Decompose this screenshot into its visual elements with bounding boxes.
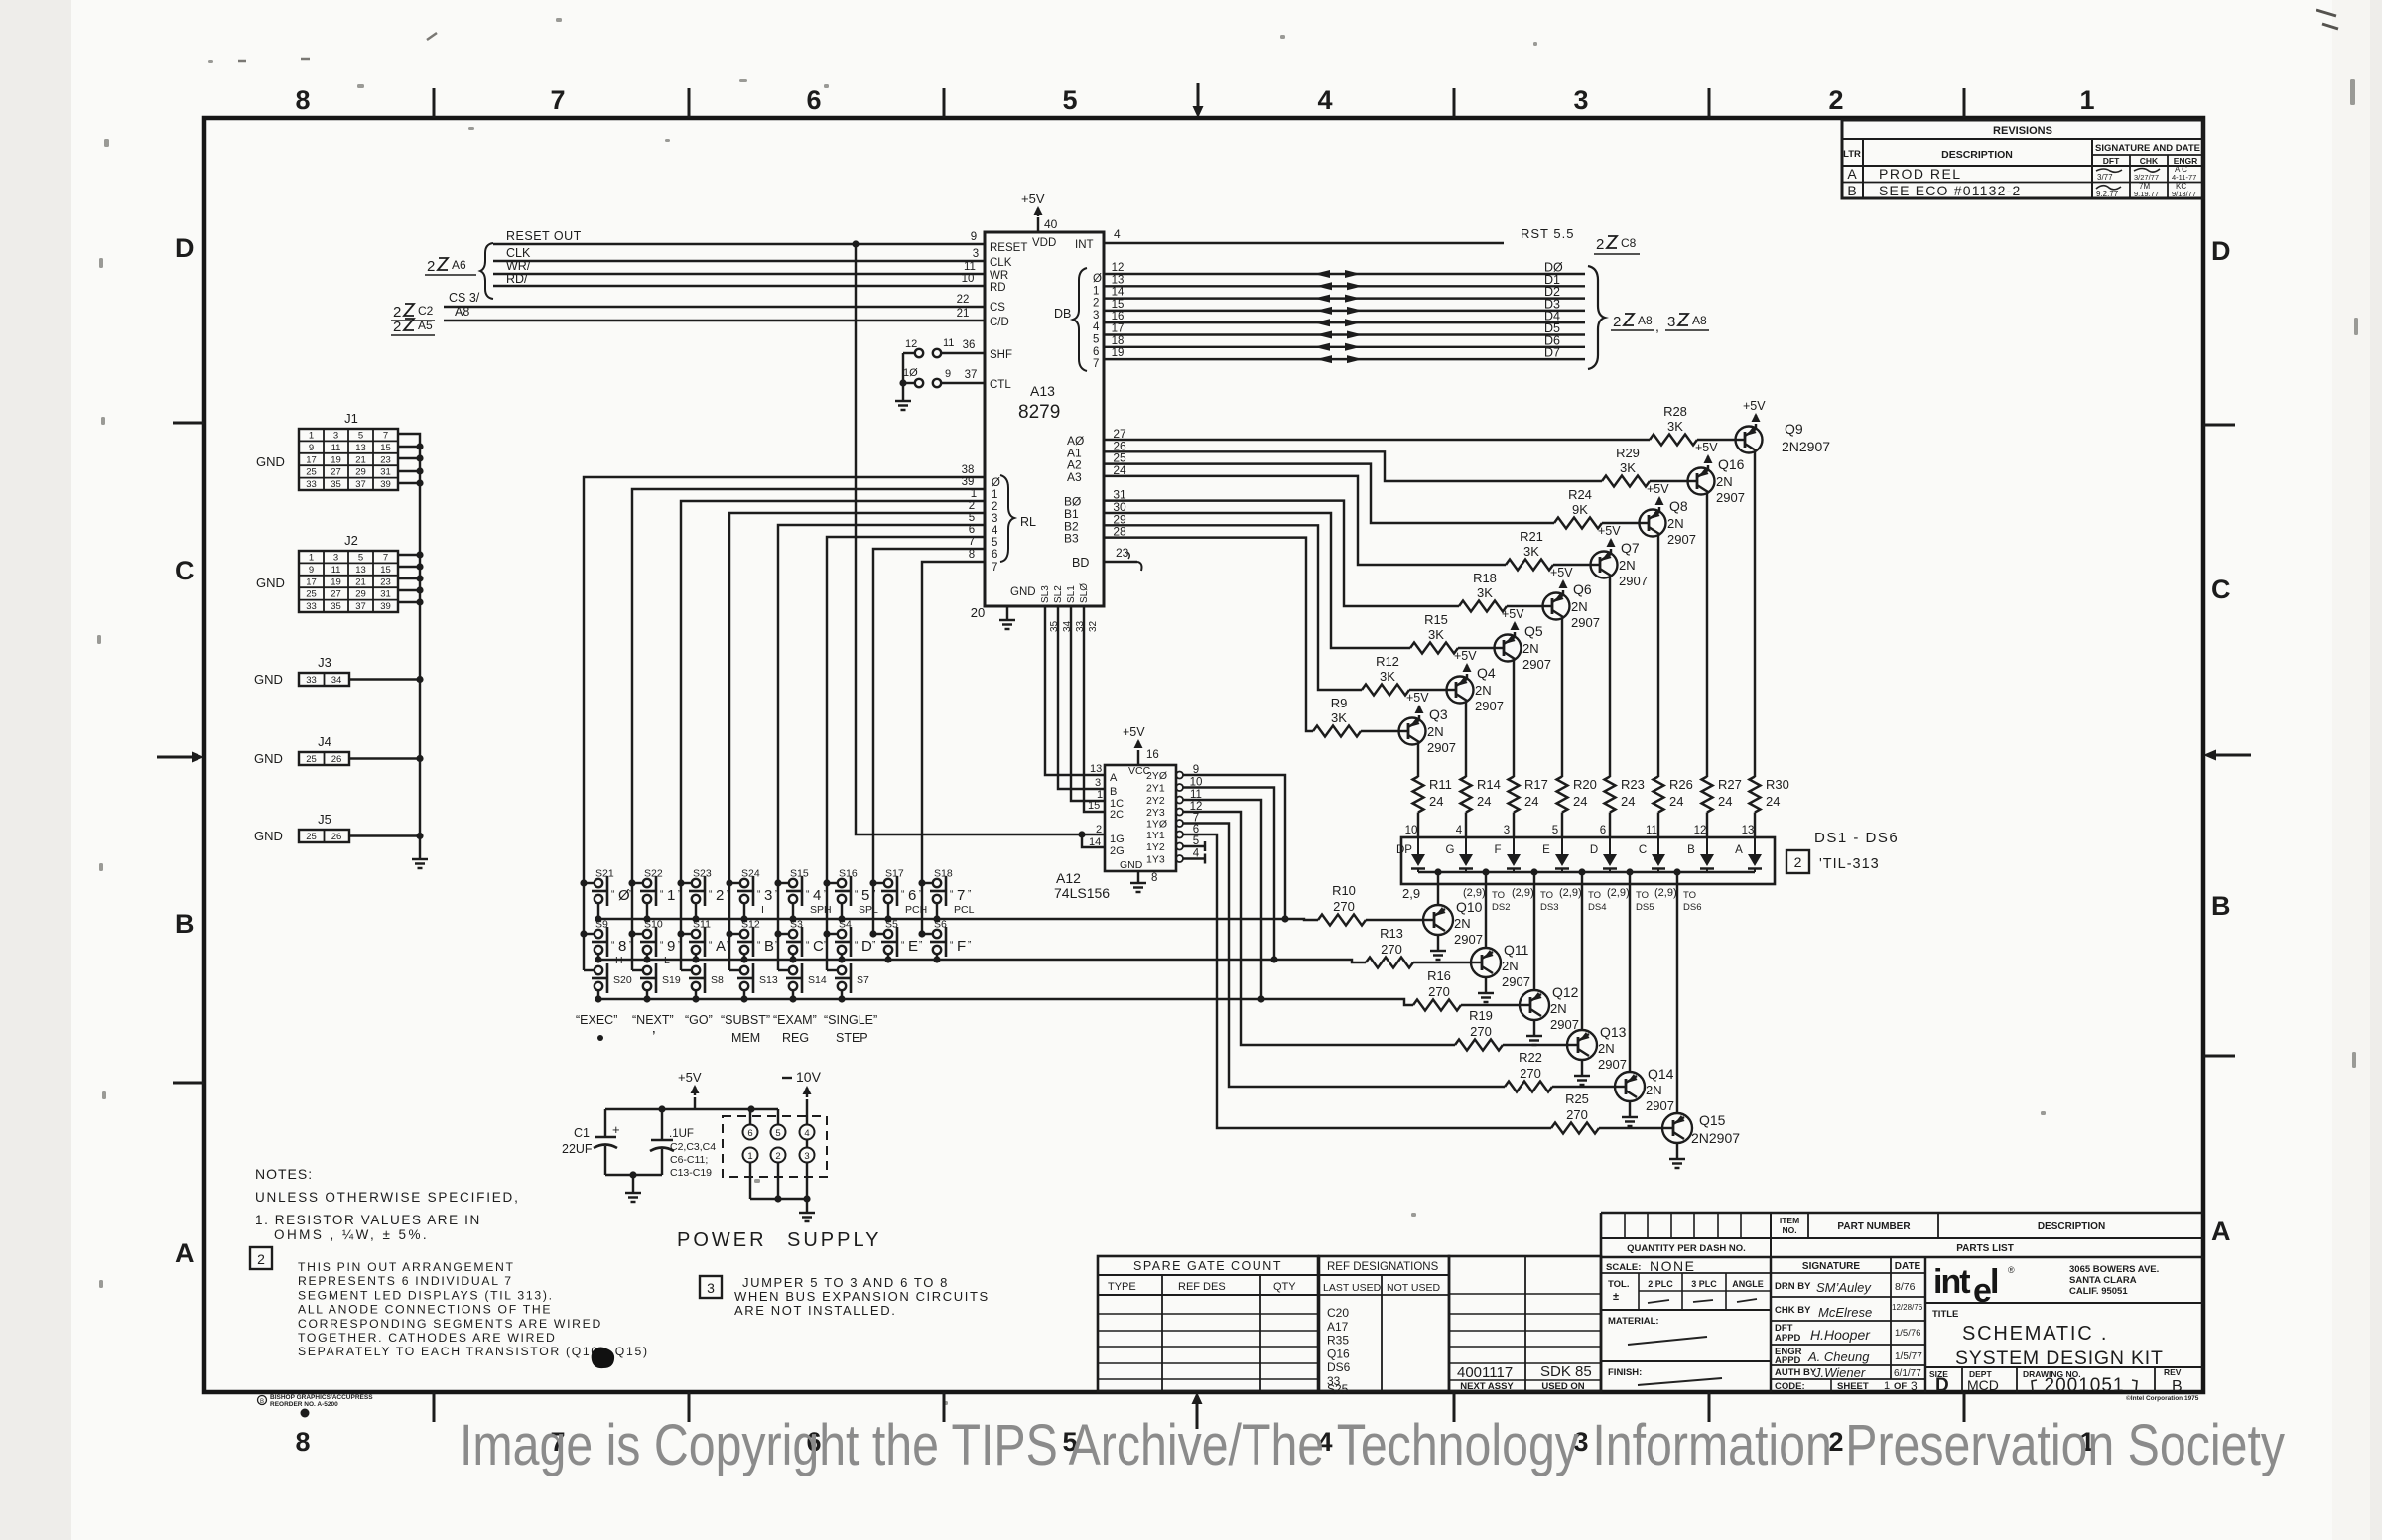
svg-text:11: 11	[964, 261, 976, 273]
svg-text:CS 3/: CS 3/	[449, 291, 480, 305]
svg-text:JUMPER 5 TO 3 AND 6 TO 8: JUMPER 5 TO 3 AND 6 TO 8	[742, 1275, 949, 1290]
wire A2 staircase	[1104, 464, 1554, 523]
wire RL0 staircase	[584, 477, 985, 883]
svg-text:S21: S21	[595, 868, 614, 880]
display cathode junction dots	[1434, 868, 1441, 875]
svg-text:NO.: NO.	[1782, 1225, 1796, 1235]
display cathode stubs	[1437, 872, 1439, 884]
svg-text:17: 17	[1112, 323, 1125, 335]
spare gate count table	[1098, 1256, 1318, 1391]
svg-text:AUTH BY: AUTH BY	[1775, 1367, 1817, 1378]
svg-text:A8: A8	[1692, 314, 1707, 327]
svg-text:GND: GND	[256, 576, 285, 590]
svg-text:OHMS , ¼W, ± 5%.: OHMS , ¼W, ± 5%.	[274, 1227, 429, 1242]
svg-text:3 PLC: 3 PLC	[1691, 1279, 1717, 1289]
svg-text:+5V: +5V	[678, 1070, 702, 1085]
wire Q12 collector stub	[1533, 884, 1535, 990]
svg-text:R23: R23	[1621, 777, 1645, 792]
switch S16 key 5	[827, 882, 838, 884]
power pin circle 3	[800, 1148, 815, 1163]
svg-text:12: 12	[1112, 262, 1125, 274]
svg-text:5: 5	[775, 1128, 780, 1139]
wire RESET OUT	[493, 243, 985, 245]
svg-text:Q8: Q8	[1669, 498, 1688, 514]
svg-text:3/27/77: 3/27/77	[2134, 173, 2159, 182]
svg-text:R26: R26	[1669, 777, 1693, 792]
svg-text:”: ”	[872, 940, 875, 951]
svg-text:2N: 2N	[1571, 599, 1588, 614]
svg-text:SPL: SPL	[859, 904, 878, 916]
svg-text:2907: 2907	[1571, 615, 1600, 630]
svg-text:2N: 2N	[1619, 558, 1636, 573]
svg-text:S24: S24	[741, 868, 760, 880]
svg-text:2: 2	[1613, 314, 1621, 330]
transistor Q4 2N2907	[1447, 677, 1474, 704]
power supply +5V rail	[605, 1108, 778, 1110]
svg-text:22UF: 22UF	[562, 1142, 593, 1156]
wire Q13 collector stub	[1581, 884, 1583, 1030]
svg-text:R16: R16	[1427, 968, 1451, 983]
svg-text:1: 1	[309, 553, 314, 564]
connector J1	[299, 429, 398, 490]
svg-text:,: ,	[1655, 319, 1659, 334]
svg-text:C2: C2	[418, 304, 434, 318]
wire keyboard column bus 2	[631, 883, 633, 970]
wire J2 rows to ground bus	[398, 554, 420, 556]
svg-text:1/5/77: 1/5/77	[1895, 1351, 1922, 1362]
wire 1Y0 digit 5 line	[1183, 824, 1505, 1088]
svg-text:2907: 2907	[1619, 574, 1648, 588]
switch S4 key D	[827, 933, 838, 935]
svg-text:4-11-77: 4-11-77	[2172, 173, 2196, 182]
svg-text:A8: A8	[455, 305, 469, 319]
svg-text:13: 13	[355, 443, 366, 453]
wire Q9 collector	[1754, 451, 1756, 778]
svg-text:REORDER NO. A-5200: REORDER NO. A-5200	[270, 1401, 338, 1408]
svg-text:33: 33	[306, 675, 317, 686]
svg-text:APPD: APPD	[1775, 1355, 1801, 1366]
svg-text:A13: A13	[1030, 383, 1055, 399]
svg-text:B: B	[1847, 183, 1856, 198]
svg-text:REF DESIGNATIONS: REF DESIGNATIONS	[1327, 1261, 1439, 1273]
switch S23 key 2	[681, 882, 692, 884]
wire S16 to row line	[841, 903, 843, 919]
svg-text:”: ”	[727, 940, 729, 951]
svg-text:6/1/77: 6/1/77	[1894, 1368, 1921, 1379]
svg-text:7: 7	[992, 562, 997, 574]
size dept drawing rev row	[1925, 1366, 2203, 1368]
svg-text:25: 25	[306, 589, 317, 600]
svg-text:S20: S20	[613, 974, 632, 986]
svg-text:SL3: SL3	[1040, 585, 1051, 603]
wire RL5 staircase	[827, 537, 985, 883]
svg-text:2N: 2N	[1475, 683, 1492, 698]
resistor R12 3K	[1409, 689, 1447, 691]
svg-text:J3: J3	[318, 655, 331, 670]
svg-text:“: “	[806, 889, 809, 900]
power pin circle 4	[800, 1125, 815, 1140]
svg-text:Ø: Ø	[992, 477, 1000, 489]
transistor Q6 2N2907	[1543, 593, 1570, 620]
svg-text:(2,9): (2,9)	[1559, 887, 1582, 899]
svg-text:18: 18	[1112, 335, 1125, 347]
svg-text:S10: S10	[644, 919, 663, 931]
svg-text:“EXAM”: “EXAM”	[773, 1013, 817, 1027]
wire A13 SL3 to A12 2C	[1084, 606, 1105, 812]
ground Q13	[1574, 1075, 1590, 1077]
svg-text:2N2907: 2N2907	[1782, 439, 1830, 454]
svg-text:R35: R35	[1327, 1334, 1349, 1347]
resistor R19 270	[1455, 1040, 1503, 1051]
switch S3 key C	[778, 933, 789, 935]
svg-text:.1UF: .1UF	[669, 1128, 694, 1140]
svg-text:26: 26	[331, 754, 342, 765]
svg-text:2N: 2N	[1598, 1041, 1615, 1056]
switch S17 key 6	[873, 882, 884, 884]
transistor Q7 2N2907	[1591, 552, 1618, 578]
resistor R29 3K	[1650, 480, 1688, 482]
svg-text:22: 22	[957, 294, 970, 306]
svg-text:2Y1: 2Y1	[1146, 783, 1165, 795]
svg-text:GND: GND	[254, 672, 283, 687]
svg-text:8: 8	[969, 549, 975, 561]
wire S19 to row line	[646, 990, 648, 999]
+5V arrow power supply	[694, 1097, 696, 1109]
svg-text:3: 3	[707, 1280, 715, 1296]
svg-text:CALIF. 95051: CALIF. 95051	[2069, 1286, 2128, 1297]
svg-text:2G: 2G	[1110, 845, 1125, 857]
svg-text:DFT: DFT	[2103, 156, 2120, 166]
+5V supply Q7	[1610, 549, 1612, 554]
wire RL4 staircase	[778, 525, 985, 883]
switch S24 key 3	[729, 882, 740, 884]
svg-text:ALL ANODE CONNECTIONS OF THE: ALL ANODE CONNECTIONS OF THE	[298, 1303, 552, 1317]
wire power pin 4 to 3	[806, 1140, 808, 1148]
svg-text:R15: R15	[1424, 612, 1448, 627]
svg-text:2,9: 2,9	[1402, 886, 1420, 901]
svg-text:SANTA CLARA: SANTA CLARA	[2069, 1275, 2137, 1286]
svg-text:DATE: DATE	[1895, 1261, 1921, 1272]
svg-text:CHK BY: CHK BY	[1775, 1305, 1811, 1316]
resistor R15 3K	[1458, 647, 1495, 649]
svg-text:SCHEMATIC .: SCHEMATIC .	[1962, 1323, 2108, 1345]
resistor R14 24	[1461, 777, 1472, 813]
wire S12 to row line	[743, 954, 745, 960]
svg-text:R10: R10	[1332, 883, 1356, 898]
svg-text:C2,C3,C4: C2,C3,C4	[670, 1141, 716, 1153]
wire J4 to ground bus	[349, 757, 420, 759]
svg-text:2907: 2907	[1716, 490, 1745, 505]
wire A13 SL1 to A12 B	[1058, 606, 1105, 789]
+5V supply Q5	[1514, 632, 1516, 637]
svg-text:2N: 2N	[1454, 916, 1471, 931]
power pin circle 5	[771, 1125, 786, 1140]
svg-text:B: B	[2172, 1378, 2183, 1395]
zone arrow top	[1197, 83, 1200, 107]
svg-text:A12: A12	[1056, 870, 1081, 886]
zone numbers top	[295, 85, 2094, 115]
svg-text:SDK 85: SDK 85	[1540, 1363, 1592, 1380]
svg-text:NONE: NONE	[1650, 1258, 1695, 1274]
capacitor C2-C19 .1UF	[661, 1109, 663, 1140]
zone tick marks right	[2203, 424, 2235, 427]
wire A13 SL2 to A12 1C	[1071, 606, 1105, 801]
svg-text:S12: S12	[741, 919, 760, 931]
svg-text:25: 25	[306, 467, 317, 478]
svg-text:WHEN BUS EXPANSION CIRCUI: WHEN BUS EXPANSION CIRCUITS	[734, 1289, 990, 1304]
wire Q14 collector stub	[1629, 884, 1631, 1072]
wire RST 5.5 INT pin 4	[1104, 242, 1504, 244]
svg-text:OF: OF	[1894, 1381, 1907, 1392]
svg-text:5: 5	[1062, 85, 1077, 115]
wire S23 to row line	[695, 903, 697, 919]
svg-text:I: I	[761, 904, 764, 916]
switch S11 key A	[681, 933, 692, 935]
wire Q14 emitter ground	[1629, 1101, 1631, 1117]
svg-text:“: “	[855, 940, 858, 951]
svg-text:ITEM: ITEM	[1780, 1216, 1799, 1225]
svg-text:7: 7	[957, 887, 965, 904]
svg-text:R19: R19	[1469, 1008, 1493, 1023]
svg-text:REV: REV	[2164, 1367, 2182, 1377]
svg-text:S6: S6	[934, 919, 947, 931]
zone letters right	[2211, 236, 2231, 1246]
wire A13 SL0 to A12 A	[1045, 606, 1105, 775]
svg-text:NOT USED: NOT USED	[1387, 1282, 1440, 1294]
svg-text:3: 3	[1911, 1379, 1918, 1393]
svg-text:25: 25	[306, 832, 317, 842]
wire BD pin 23	[1104, 561, 1137, 563]
svg-text:MATERIAL:: MATERIAL:	[1608, 1316, 1659, 1327]
transistor Q12 2N2907	[1520, 990, 1549, 1020]
svg-text:”: ”	[678, 889, 681, 900]
svg-text:RST 5.5: RST 5.5	[1521, 226, 1574, 241]
svg-text:J5: J5	[318, 812, 331, 827]
svg-text:Q13: Q13	[1600, 1024, 1627, 1040]
wire 2Y2 to row3	[1183, 800, 1261, 999]
svg-text:4: 4	[1114, 227, 1121, 241]
svg-text:24: 24	[1718, 794, 1732, 809]
svg-text:(2,9): (2,9)	[1512, 887, 1534, 899]
svg-text:23: 23	[1116, 546, 1129, 560]
node rail junctions	[658, 1105, 665, 1112]
svg-text:27: 27	[331, 467, 341, 478]
svg-text:SUPPLY: SUPPLY	[787, 1229, 881, 1251]
svg-text:25: 25	[306, 754, 317, 765]
display DS1-DS6 TIL-313 box	[1401, 837, 1775, 884]
wire Q15 collector stub	[1676, 884, 1678, 1113]
wire CS 3/	[444, 306, 985, 308]
svg-text:SIGNATURE AND DATE: SIGNATURE AND DATE	[2095, 143, 2200, 154]
svg-text:15: 15	[1112, 299, 1125, 311]
svg-text:8: 8	[618, 938, 626, 955]
svg-text:9: 9	[667, 938, 675, 955]
ground Q12	[1526, 1035, 1542, 1037]
svg-text:16: 16	[1146, 749, 1159, 761]
svg-text:37: 37	[965, 369, 978, 381]
svg-text:S11: S11	[693, 919, 711, 931]
svg-text:+5V: +5V	[1695, 441, 1718, 454]
zone tick marks bottom	[433, 1392, 436, 1422]
+5V supply Q8	[1658, 507, 1660, 512]
data bus direction arrows	[1314, 270, 1330, 278]
bishop graphics reorder	[258, 1396, 267, 1405]
svg-text:3/77: 3/77	[2097, 173, 2113, 182]
transistor Q11 2N2907	[1471, 948, 1501, 977]
svg-text:PCH: PCH	[905, 904, 927, 916]
svg-text:39: 39	[380, 479, 391, 490]
svg-text:34: 34	[1062, 620, 1073, 632]
svg-text:3: 3	[1504, 825, 1510, 836]
svg-text:B: B	[2211, 891, 2231, 921]
svg-text:TOL.: TOL.	[1608, 1279, 1629, 1290]
switch S14	[778, 969, 789, 971]
svg-text:MCD: MCD	[1967, 1377, 1999, 1393]
svg-text:REF DES: REF DES	[1178, 1281, 1226, 1293]
svg-text:Q15: Q15	[1699, 1112, 1726, 1128]
svg-text:D: D	[1935, 1375, 1949, 1396]
svg-text:“: “	[806, 940, 809, 951]
svg-text:12: 12	[1694, 825, 1707, 836]
svg-text:2N: 2N	[1550, 1001, 1567, 1016]
node RESET-1G junction	[852, 240, 859, 247]
svg-text:2: 2	[1794, 854, 1802, 870]
svg-text:9.19.77: 9.19.77	[2134, 190, 2159, 198]
svg-text:8: 8	[295, 85, 310, 115]
svg-text:VDD: VDD	[1032, 237, 1056, 249]
wire A8	[444, 320, 985, 321]
wire Q11 emitter ground	[1485, 977, 1487, 993]
svg-text:15: 15	[1088, 800, 1100, 812]
svg-text:R13: R13	[1380, 926, 1403, 941]
switch S12 key B	[729, 933, 740, 935]
wire B3 staircase	[1104, 538, 1313, 731]
svg-text:J1: J1	[344, 411, 358, 426]
svg-text:B3: B3	[1064, 532, 1079, 546]
svg-text:“: “	[757, 940, 760, 951]
wire Q10 collector stub	[1437, 884, 1439, 905]
+5V supply Q4	[1466, 674, 1468, 679]
ground power connector	[799, 1212, 815, 1214]
svg-text:TO: TO	[1540, 890, 1553, 901]
svg-text:F: F	[1494, 844, 1501, 856]
resistor R17 24	[1509, 777, 1520, 813]
svg-text:CS: CS	[990, 302, 1005, 314]
svg-text:R14: R14	[1477, 777, 1501, 792]
wire S21 to row line	[597, 903, 599, 919]
svg-text:5: 5	[358, 553, 363, 564]
node CTL ground junction	[899, 379, 906, 386]
svg-text:TO: TO	[1588, 890, 1601, 901]
wire S4 to row line	[841, 954, 843, 960]
svg-text:1/5/76: 1/5/76	[1895, 1328, 1920, 1339]
svg-text:SEE ECO #01132-2: SEE ECO #01132-2	[1879, 183, 2021, 198]
svg-text:(2,9): (2,9)	[1607, 887, 1630, 899]
drawing border frame	[204, 118, 2203, 1392]
wire 2Y0 to row1	[1183, 775, 1285, 919]
svg-text:“: “	[709, 889, 712, 900]
svg-text:S7: S7	[857, 974, 869, 986]
ground Q11	[1478, 992, 1494, 994]
svg-text:270: 270	[1333, 899, 1355, 914]
svg-text:APPD: APPD	[1775, 1333, 1801, 1344]
svg-text:A3: A3	[1067, 470, 1082, 484]
svg-text:33: 33	[1075, 620, 1086, 632]
wire J5 to ground bus	[349, 834, 420, 836]
svg-text:35: 35	[331, 479, 341, 490]
svg-text:RD: RD	[990, 282, 1006, 294]
svg-text:Q16: Q16	[1718, 456, 1745, 472]
svg-text:ANGLE: ANGLE	[1732, 1279, 1764, 1289]
svg-text:C6-C11;: C6-C11;	[670, 1154, 708, 1166]
switch S19	[632, 969, 643, 971]
svg-text:7: 7	[1093, 358, 1099, 370]
resistor R24 9K	[1602, 522, 1640, 524]
svg-text:3: 3	[333, 553, 338, 564]
svg-text:“: “	[611, 889, 614, 900]
display anode bus	[1418, 871, 1755, 873]
node row2 2Y1 junction	[1270, 956, 1277, 962]
wire RD/	[493, 285, 985, 287]
svg-text:15: 15	[380, 565, 391, 576]
svg-text:C: C	[1639, 844, 1647, 856]
svg-text:3K: 3K	[1428, 627, 1444, 642]
zone arrow bottom	[1196, 1403, 1199, 1429]
svg-text:270: 270	[1520, 1066, 1541, 1081]
svg-text:10: 10	[1405, 825, 1418, 836]
wire Q3 collector	[1417, 743, 1419, 778]
svg-text:“: “	[901, 889, 904, 900]
svg-text:36: 36	[963, 339, 976, 351]
svg-text:“: “	[950, 940, 953, 951]
power pin circle 2	[771, 1148, 786, 1163]
svg-text:34: 34	[331, 675, 342, 686]
svg-text:6: 6	[806, 85, 821, 115]
svg-text:S18: S18	[934, 868, 953, 880]
ground Q10	[1430, 950, 1446, 952]
svg-text:+5V: +5V	[1647, 482, 1669, 496]
svg-text:Q4: Q4	[1477, 665, 1496, 681]
wire 1Y2 stub pin 5	[1183, 845, 1205, 847]
svg-text:13: 13	[355, 565, 366, 576]
svg-text:C: C	[813, 938, 824, 955]
resistor R27 24	[1702, 777, 1713, 813]
svg-text:3: 3	[992, 513, 997, 525]
punch dot	[301, 1409, 310, 1418]
svg-text:2001051: 2001051	[2045, 1375, 2125, 1396]
svg-text:3: 3	[333, 431, 338, 442]
svg-text:A17: A17	[1327, 1320, 1349, 1334]
wire S15 to row line	[792, 903, 794, 919]
svg-text:SCALE:: SCALE:	[1606, 1262, 1641, 1273]
svg-text:S3: S3	[790, 919, 803, 931]
zone tick marks top	[433, 88, 436, 118]
connector J4	[299, 752, 349, 765]
svg-text:3065 BOWERS AVE.: 3065 BOWERS AVE.	[2069, 1264, 2159, 1275]
svg-text:11: 11	[331, 443, 341, 453]
svg-text:A: A	[2211, 1217, 2231, 1246]
svg-text:DS1 - DS6: DS1 - DS6	[1814, 830, 1899, 846]
svg-text:SPH: SPH	[810, 904, 832, 916]
resistor R23 24	[1605, 777, 1616, 813]
wire Q15 emitter ground	[1676, 1143, 1678, 1159]
svg-text:2907: 2907	[1667, 532, 1696, 547]
svg-text:TO: TO	[1636, 890, 1649, 901]
svg-text:TO: TO	[1683, 890, 1696, 901]
svg-text:A8: A8	[1638, 314, 1653, 327]
wire RL6 staircase	[873, 549, 985, 883]
switch S13	[729, 969, 740, 971]
